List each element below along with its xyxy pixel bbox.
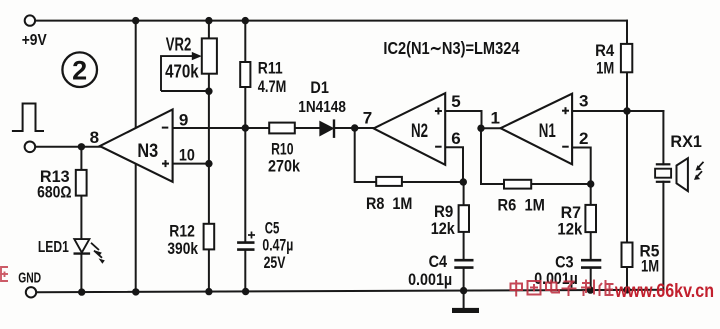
svg-text:+9V: +9V (22, 32, 47, 49)
svg-text:3: 3 (579, 91, 588, 110)
wire bottom ground rail (36, 290, 663, 292)
watermark chinese characters (vector strokes) (511, 280, 614, 297)
node rail C4 (460, 287, 467, 294)
node top rail VR2 (205, 17, 212, 24)
svg-text:0.47µ: 0.47µ (262, 235, 293, 254)
wire RX1 column (662, 111, 664, 164)
char dian (546, 280, 559, 293)
resistor R6 (504, 180, 531, 189)
svg-text:C4: C4 (429, 252, 448, 271)
node rail C3 (587, 286, 594, 293)
potentiometer VR2 body (202, 38, 217, 73)
wire N1 feedback to R6 (481, 128, 504, 184)
node R8/R9 (460, 178, 467, 185)
node rail LED (78, 288, 85, 295)
svg-text:VR2: VR2 (166, 35, 192, 55)
op-amp N1 (501, 94, 573, 165)
node rail N3 V- (132, 288, 139, 295)
wire R13/LED column (80, 147, 82, 170)
svg-text:12k: 12k (557, 219, 582, 238)
node rail C5 (242, 288, 249, 295)
svg-text:N3: N3 (137, 141, 158, 162)
node rail R12 (205, 288, 212, 295)
wire N2 pin6 down (445, 147, 463, 182)
svg-text:R6 1M: R6 1M (498, 195, 545, 214)
char zi (562, 282, 577, 297)
circled 2 (62, 52, 97, 87)
svg-text:2: 2 (579, 129, 588, 148)
wire R6 to node (531, 183, 591, 185)
potentiometer VR2 wiper arrow (161, 56, 209, 91)
node D1 cathode (351, 124, 358, 131)
resistor R8 (376, 177, 402, 186)
svg-text:4.7M: 4.7M (258, 77, 287, 96)
svg-text:680Ω: 680Ω (37, 183, 71, 202)
svg-text:N1: N1 (539, 121, 556, 142)
resistor R7 (585, 205, 596, 232)
svg-text:GND: GND (18, 270, 41, 287)
op-amp N2 (374, 93, 446, 165)
wire VR2 column (208, 21, 210, 39)
resistor R9 (459, 205, 469, 232)
svg-text:LED1: LED1 (38, 239, 69, 256)
node top rail N3 supply (132, 17, 139, 24)
wire input to N3 (35, 146, 100, 148)
speaker cone (677, 158, 688, 191)
op-amp N3 (100, 109, 173, 181)
svg-text:1N4148: 1N4148 (298, 99, 346, 116)
svg-text:25V: 25V (264, 253, 286, 272)
svg-text:R8 1M: R8 1M (366, 194, 412, 213)
wire right column R4/R5 (626, 21, 628, 44)
svg-text:7: 7 (363, 108, 372, 127)
capacitor C5 (237, 243, 254, 250)
wire pin9 row / R10 / D1 row (173, 127, 270, 129)
svg-text:0.001µ: 0.001µ (408, 270, 452, 289)
ground (452, 308, 479, 313)
wire N2 pin5 to N1 input node (445, 111, 481, 128)
resistor R12 (204, 224, 215, 250)
svg-text:IC2(N1∼N3)=LM324: IC2(N1∼N3)=LM324 (383, 38, 519, 58)
svg-text:6: 6 (451, 129, 460, 148)
svg-text:R4: R4 (595, 41, 615, 60)
svg-text:470k: 470k (165, 61, 199, 81)
wire N2 feedback to R8 (355, 128, 377, 182)
wire N3 V+ stub (135, 21, 137, 129)
svg-text:www.66kv.cn: www.66kv.cn (614, 280, 714, 302)
svg-text:R11: R11 (258, 58, 283, 77)
svg-text:1M: 1M (596, 58, 614, 77)
wire N3 V- stub (135, 164, 137, 292)
C5 polarity + (248, 232, 255, 239)
resistor R4 (621, 44, 632, 72)
node top rail R11 (242, 17, 249, 24)
svg-text:R12: R12 (169, 222, 195, 241)
resistor R13 (76, 170, 87, 196)
resistor R10 (269, 123, 295, 134)
node N1 input (477, 125, 484, 132)
svg-text:N2: N2 (411, 121, 428, 142)
wire R7 column C3 (590, 184, 592, 205)
wire N1 pin3 row (572, 110, 663, 112)
svg-text:8: 8 (90, 128, 99, 147)
svg-text:10: 10 (179, 145, 195, 164)
node VR2 wiper (205, 88, 212, 95)
diode D1 (320, 119, 334, 137)
wire ground stub (463, 291, 465, 309)
svg-text:1: 1 (491, 108, 500, 127)
svg-text:270k: 270k (268, 156, 300, 175)
svg-text:1M: 1M (641, 256, 659, 275)
wire top supply rail (35, 20, 627, 22)
node pin3/R4 (623, 107, 630, 114)
wire R9 column C4 (463, 182, 465, 205)
svg-text:390k: 390k (167, 239, 198, 258)
svg-text:12k: 12k (431, 219, 456, 238)
wire R11/C5 column (244, 21, 246, 62)
resistor R11 (240, 62, 250, 87)
LED1 symbol (74, 239, 105, 264)
node pin10 (205, 160, 212, 167)
node pin9/R11/C5 (242, 124, 249, 131)
node rail R5 (623, 286, 630, 293)
svg-text:D1: D1 (310, 78, 329, 97)
svg-text:5: 5 (451, 92, 460, 111)
resistor R5 (622, 243, 633, 268)
char zhi (581, 280, 594, 297)
char guo (528, 281, 541, 295)
capacitor C3 (581, 260, 601, 267)
node R6/R7 (587, 180, 594, 187)
terminal GND (26, 287, 36, 297)
char zhong (511, 280, 523, 297)
svg-text:9: 9 (179, 110, 188, 129)
capacitor C4 (454, 260, 473, 267)
pulse waveform symbol (12, 104, 44, 132)
wire R8 to node (402, 181, 463, 183)
svg-text:RX1: RX1 (670, 132, 702, 151)
terminal input (25, 142, 36, 153)
wire N1 pin2 down (572, 148, 591, 185)
terminal +9V (25, 15, 35, 25)
transducer RX1 (655, 158, 688, 191)
node input junction (78, 143, 85, 150)
RX1 incoming arrows (696, 162, 704, 178)
watermark edge fragment (0, 267, 8, 281)
svg-text:2: 2 (72, 56, 87, 86)
wire pin10 row (173, 163, 209, 165)
wire node to N1 apex (481, 127, 501, 129)
char zuo (600, 280, 614, 296)
